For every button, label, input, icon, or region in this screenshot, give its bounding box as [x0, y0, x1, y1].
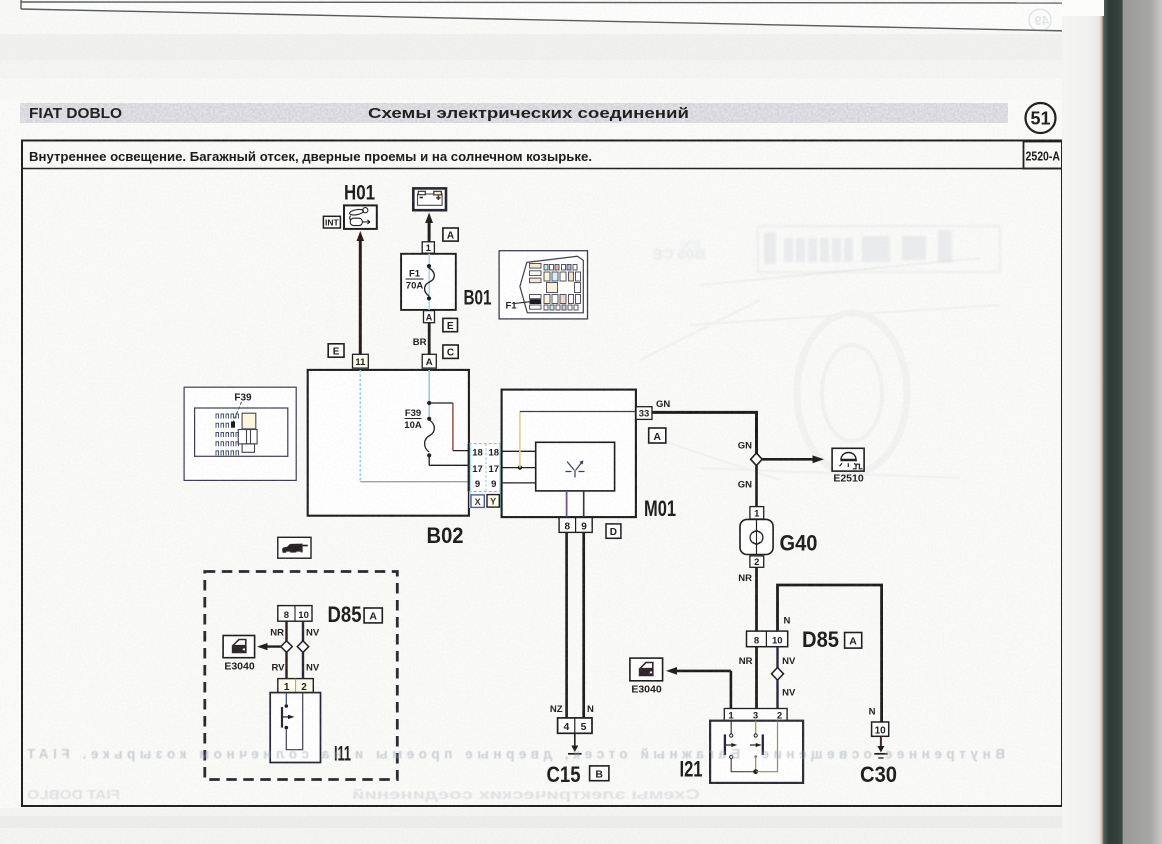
lamp H01 [344, 205, 377, 229]
connector A label at D85 [845, 633, 862, 649]
connector INT [323, 216, 340, 228]
fuse grid F39 inset [216, 414, 239, 455]
wire NV D85 to splice [302, 621, 304, 641]
pin A of B02 [422, 354, 436, 368]
connector B label [590, 766, 609, 781]
page number 51 [1026, 103, 1056, 133]
pin 10 of C30 [872, 722, 889, 736]
connector Y label [487, 495, 499, 508]
pins 8 9 of M01 [559, 518, 592, 533]
switch I21 [710, 721, 803, 783]
wires module to pins 8 9 [567, 491, 584, 518]
wire RV to I11 [285, 652, 287, 678]
wire BR [428, 323, 431, 355]
switch E3040 icon left [223, 636, 255, 658]
right page edge [1062, 0, 1162, 844]
fuse layout inset F39 [184, 387, 296, 480]
pin block B02/M01 [469, 444, 502, 508]
junction box B02 [308, 370, 469, 516]
header band [20, 103, 1008, 123]
wire NR to I21 pin3 [755, 647, 758, 709]
connector A label at left D85 [364, 608, 382, 623]
fuse F1 highlighted [530, 299, 542, 304]
wire NV upper [776, 647, 778, 668]
wire to H01 [357, 231, 365, 354]
faint bleed artwork [640, 258, 1000, 480]
wire GN from pin 33 [652, 412, 757, 453]
pin 2 of G40 [750, 556, 764, 568]
harness D85 dashed box [205, 572, 397, 780]
pin A of B01 [424, 311, 435, 323]
control unit M01 [502, 390, 636, 517]
wire pin33 to pin17 [520, 412, 636, 468]
arrow to E2510 [762, 455, 824, 463]
connector A label right of M01 [649, 428, 666, 443]
fuse F39 inside B02 [404, 370, 468, 465]
wire branch to pin 18 [429, 403, 469, 451]
wire NZ to C15 [565, 532, 568, 718]
lamp G40 [740, 519, 773, 554]
wire N to C15 [582, 532, 585, 718]
junction dot pin17 [518, 465, 522, 469]
connector C label [443, 345, 458, 359]
arrow to left E3040 [257, 643, 281, 650]
connector A label [443, 228, 458, 241]
connector D85 pins 8 10 (left) [278, 606, 312, 622]
pin 1 of G40 [750, 507, 764, 520]
wire NV to I11 [302, 652, 304, 678]
connector E label [443, 318, 458, 331]
lamp E2510 [832, 448, 864, 471]
module inside M01 [536, 442, 615, 491]
top bleed box [21, 0, 1070, 31]
connector D label [606, 524, 621, 538]
switch E3040 icon right [630, 658, 663, 681]
splice NV [297, 641, 308, 653]
main frame [22, 141, 1062, 807]
wire NR G40 to D85 [755, 567, 758, 631]
wires M01 pin rows [502, 451, 536, 483]
wire NV to I21 pin2 [776, 680, 778, 708]
wire to battery [425, 213, 433, 242]
switch I11 [270, 693, 320, 763]
fuse layout inset B01 [499, 251, 587, 319]
connector X label [471, 495, 484, 508]
splice on NV [772, 668, 784, 681]
fuse F39 highlighted [231, 422, 235, 428]
connector I21 pins 1 3 2 [724, 709, 787, 722]
fuses in B01 inset [530, 264, 573, 310]
connector D85 pins 8 10 [747, 631, 788, 647]
ground C30 [874, 736, 887, 758]
ground below C15 [568, 733, 582, 754]
relay shapes in F39 inset [243, 414, 255, 428]
bleed-through text row 2 [27, 787, 700, 802]
splice on GN [751, 453, 763, 466]
connector I11 pins 1 2 [278, 679, 314, 693]
arrow wire to E3040 [666, 667, 731, 709]
connector C15 pins 4 5 [558, 718, 592, 733]
connector E label left [328, 344, 344, 358]
fuse box B01 [401, 254, 456, 310]
bleed-through text row 1 [26, 747, 1005, 762]
pin 1 of B01 [422, 242, 434, 254]
battery [413, 188, 446, 210]
wire GN to G40 [755, 466, 758, 507]
wire NR D85 to splice [285, 621, 287, 641]
car icon [278, 537, 311, 558]
pin 33 of M01 [636, 407, 652, 420]
splice RV [281, 641, 292, 653]
wire N loop to C30 [778, 585, 882, 722]
pin 11 of B02 [353, 354, 369, 368]
wire from pin 11 inside B02 [360, 370, 468, 482]
